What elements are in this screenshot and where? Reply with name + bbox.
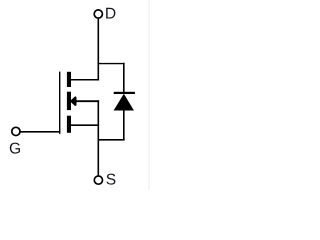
terminal G [12, 127, 20, 135]
wire: source lead to MOSFET channel [71, 124, 100, 126]
gate line [59, 72, 61, 134]
svg-text:G: G [9, 141, 21, 158]
MOSFET channel bar middle (body) [67, 92, 71, 110]
svg-text:D: D [105, 6, 116, 23]
body arrow [71, 98, 75, 105]
wire: drain lead to MOSFET channel [71, 79, 100, 81]
wire: body lead [75, 100, 99, 102]
terminal S [94, 176, 102, 184]
wire: drain stub from D terminal down [97, 19, 99, 81]
MOSFET channel bar bottom (source) [67, 116, 71, 133]
MOSFET channel bar top (drain) [67, 72, 71, 87]
terminal D [94, 10, 102, 18]
wire: branch to diode cathode [98, 63, 125, 65]
wire: gate lead from G terminal [20, 131, 60, 133]
diode cathode bar [114, 92, 135, 94]
wire: anode connect to source node [98, 139, 125, 141]
diode anode triangle [114, 94, 134, 111]
wire: diode cathode vertical [123, 63, 125, 94]
wire: diode anode vertical [123, 110, 125, 141]
wire: body/source vertical down to S [97, 100, 99, 175]
svg-text:S: S [106, 172, 116, 189]
faint panel edge at right [148, 0, 150, 190]
